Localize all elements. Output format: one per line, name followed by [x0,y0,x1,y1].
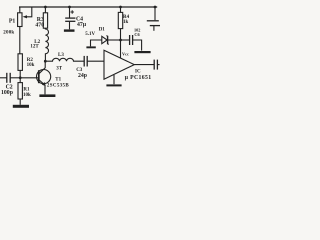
ground T1 emitter [39,94,55,97]
svg-text:IC: IC [135,70,141,75]
svg-text:24p: 24p [78,73,87,79]
potentiometer P1 [18,7,32,54]
inductor L2 [45,28,48,61]
svg-text:P1: P1 [9,18,16,24]
svg-text:T1: T1 [55,77,61,82]
node junction C5 top [154,6,157,9]
svg-text:L3: L3 [58,53,64,58]
inductor L3 [45,58,84,61]
svg-text:470: 470 [35,22,44,28]
svg-text:Vcc: Vcc [122,51,129,56]
capacitor C6 [121,35,142,51]
transistor T1 [37,61,51,94]
resistor R3 [43,7,47,28]
capacitor C4 [65,7,75,29]
svg-text:47µ: 47µ [77,22,87,28]
op-amp IC uPC1651 [104,50,134,84]
ground R1 [13,105,29,108]
node junction R3 top [44,6,47,9]
svg-text:10k: 10k [23,93,31,98]
wire base [20,77,39,79]
zener diode D1 [91,36,121,47]
node junction C4 top [68,6,71,9]
ground IC [106,84,121,86]
ground D1 [86,46,95,48]
capacitor C2 [0,73,20,83]
capacitor C7 output [154,60,159,70]
node junction D1/R4/C6 [119,39,122,42]
svg-text:12T: 12T [30,45,39,50]
node junction R4 top [119,6,122,9]
resistor R4 [118,7,122,56]
svg-text:µ PC1651: µ PC1651 [125,75,152,81]
svg-text:C6: C6 [134,32,140,37]
svg-text:200k: 200k [3,31,14,36]
capacitor C3 [84,56,104,67]
ground C6 [134,51,150,53]
svg-text:10k: 10k [27,63,35,68]
ground C4 [64,29,75,31]
svg-text:5.1V: 5.1V [85,32,95,37]
svg-text:1k: 1k [123,20,129,25]
svg-text:3T: 3T [56,66,63,71]
resistor R1 [18,78,22,105]
capacitor C5 top right [147,7,160,31]
svg-text:2SC535B: 2SC535B [47,84,69,89]
resistor R2 [18,54,22,78]
node junction base [19,76,22,79]
wire IC output [134,64,154,66]
node junction collector/L2/L3 [44,60,47,63]
svg-text:D1: D1 [99,28,106,33]
wire top supply rail [19,6,157,8]
svg-text:100p: 100p [1,90,13,96]
